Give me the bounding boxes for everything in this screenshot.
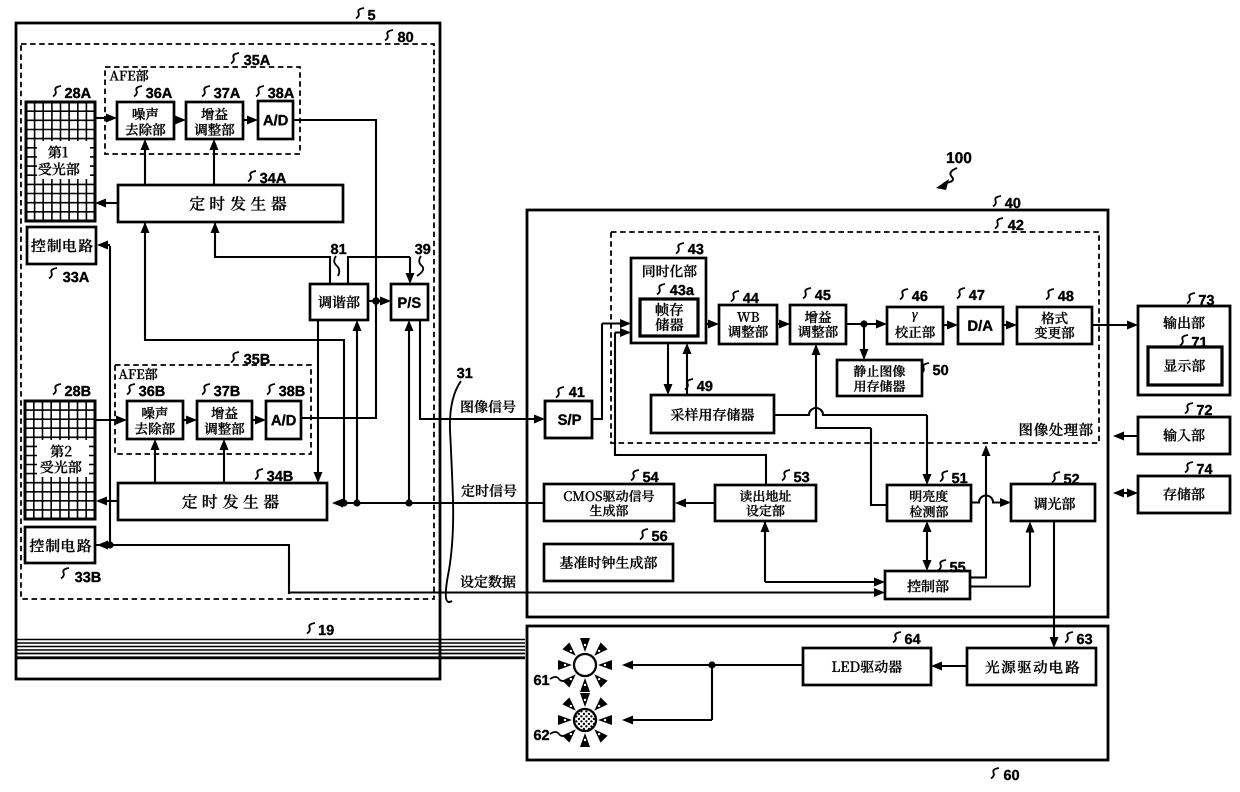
- ref label 47: [957, 288, 965, 299]
- light source drive box 63: [967, 648, 1096, 685]
- imaging section dashed box 80: [21, 44, 434, 599]
- ref label 61: [534, 675, 549, 685]
- wire 43 down to 49: [667, 343, 669, 387]
- ref label 36A: [134, 86, 142, 97]
- noise removal box 36B: [127, 401, 183, 439]
- ref label 80: [385, 30, 393, 41]
- wire 28B to 36B: [96, 419, 119, 421]
- ref label 34A: [248, 171, 256, 182]
- ref label 45: [803, 288, 811, 299]
- output box 73: [1138, 306, 1230, 395]
- ref label 37B: [202, 384, 210, 395]
- S/P box 41: [545, 401, 592, 438]
- ref label 42: [995, 218, 1003, 229]
- wire 48 to output 73: [1092, 324, 1130, 326]
- ref label 28A: [53, 86, 61, 97]
- control circuit box 33A: [27, 227, 96, 264]
- ref label 73: [1187, 293, 1195, 304]
- LED white 61: [558, 638, 612, 692]
- A/D box 38A: [258, 101, 293, 139]
- wire 36A to 37A: [174, 119, 178, 121]
- wire 34B to sensor 28B: [104, 500, 118, 502]
- wire 51 to 55 double arrow: [926, 529, 928, 563]
- wire tuner 81 to 34A: [329, 256, 331, 284]
- ref label 49: [685, 379, 693, 390]
- light guide 19 lines: [16, 639, 525, 641]
- input box 72: [1138, 417, 1230, 454]
- ref label 64: [893, 632, 901, 643]
- wire 34B to 36B: [154, 447, 156, 483]
- ref label 81: [331, 244, 346, 254]
- sensor grid 28B: [25, 401, 95, 519]
- ref label 50: [921, 363, 929, 374]
- frame memory box 43a: [640, 299, 698, 336]
- sampling memory box 49: [651, 395, 774, 433]
- timing generator box 34B: [118, 483, 327, 520]
- ref label 37A: [202, 86, 210, 97]
- storage box 74: [1138, 476, 1230, 513]
- ref label 52: [1052, 472, 1060, 483]
- ref label 60: [991, 768, 999, 779]
- timing generator box 34A: [118, 185, 343, 222]
- wire 49 to 51 with hop: [774, 408, 927, 415]
- wire 44 to 45: [777, 323, 782, 325]
- light source unit box 60: [527, 626, 1108, 760]
- wire 53 to 54: [683, 502, 715, 504]
- leader 100: [944, 168, 957, 183]
- wire timing up to P/S: [408, 328, 410, 503]
- wire timing up to tuner: [356, 328, 358, 503]
- A/D box 38B: [266, 401, 301, 439]
- wire 43 to 44: [706, 323, 711, 325]
- ref label 36B: [127, 384, 135, 395]
- processor unit box 40: [527, 210, 1108, 617]
- ref label 44: [731, 291, 739, 302]
- gain adjust box 37B: [197, 401, 252, 439]
- wire to LED 62: [711, 665, 713, 720]
- ref label 19: [307, 623, 315, 634]
- scope unit box 5: [16, 23, 440, 679]
- ref label 28B: [53, 384, 61, 395]
- ref label 63: [1065, 632, 1073, 643]
- ref label 100: [947, 152, 971, 163]
- wire 46 to 47: [943, 324, 950, 326]
- label image processing part: [1020, 423, 1032, 436]
- label setting data: [461, 575, 516, 588]
- noise removal box 36A: [117, 102, 174, 139]
- control box 55: [885, 571, 970, 599]
- wire tuner bottom to 34B: [317, 320, 319, 475]
- wire timing to 34A bottom left: [144, 222, 146, 341]
- ref label 71: [1180, 335, 1188, 346]
- brightness detect box 51: [887, 485, 971, 521]
- wire 63 to 64: [939, 665, 967, 667]
- label image signal: [462, 400, 516, 413]
- ref label 40: [993, 196, 1001, 207]
- wire 55 up to image processor 42: [970, 576, 986, 578]
- ref label 43: [676, 243, 684, 254]
- ref label 72: [1185, 403, 1193, 414]
- ref label 43a: [657, 284, 665, 295]
- wire 47 to 48: [1003, 324, 1009, 326]
- gain adjust box 37A: [186, 102, 243, 139]
- readout address box 53: [715, 485, 816, 521]
- ref label 35A: [231, 53, 239, 64]
- AFE dashed box 35A: [105, 67, 300, 154]
- ref label 56: [640, 529, 648, 540]
- control circuit box 33B: [25, 527, 95, 563]
- AFE dashed box 35B: [115, 365, 311, 454]
- wire 45 to 46 with node: [846, 323, 879, 325]
- LED driver box 64: [803, 648, 931, 685]
- wire 53 55 vertical: [764, 521, 766, 582]
- ref label 38A: [256, 86, 264, 97]
- ref label 46: [900, 289, 908, 300]
- ref label 62: [534, 730, 549, 740]
- leader 31: [446, 381, 461, 602]
- wire 53 to 43: [765, 456, 767, 485]
- wire 36B to 37B: [183, 419, 189, 421]
- wire 51 to 52 with hop: [971, 496, 1003, 503]
- wire down into 51: [926, 415, 928, 477]
- ref label 54: [631, 470, 639, 481]
- ref label 35B: [231, 352, 239, 363]
- wire 34B to 37B: [223, 447, 225, 483]
- display box 71: [1148, 347, 1222, 385]
- gamma correction box 46: [887, 307, 943, 344]
- wire 51 feedback to 45: [870, 504, 887, 506]
- P/S box 39: [391, 284, 428, 320]
- wire 55 up to dimmer 52 bottom: [970, 585, 1030, 587]
- image processing dashed box 42: [611, 232, 1099, 443]
- node junction to tuner and P/S: [372, 297, 380, 305]
- ref label 55: [938, 560, 946, 571]
- still image memory box 50: [837, 360, 922, 396]
- ref label 5: [356, 8, 364, 19]
- ref label 74: [1185, 462, 1193, 473]
- ref label 39: [415, 244, 430, 254]
- ref label 31: [457, 368, 472, 378]
- wire 74 processor double arrow: [1119, 492, 1130, 494]
- sensor grid 28A: [26, 102, 95, 221]
- ref label 34B: [255, 469, 263, 480]
- ref label 41: [556, 387, 564, 398]
- wire 37A to 38A: [243, 119, 250, 121]
- CMOS drive signal box 54: [544, 484, 674, 521]
- wire 38A output net: [293, 119, 377, 121]
- WB adjust box 44: [719, 305, 777, 344]
- wire S/P to 43: [592, 418, 603, 420]
- wire P/S to S/P image signal 31: [419, 320, 421, 419]
- ref label 33B: [61, 568, 69, 579]
- wire 72 to processor: [1121, 435, 1138, 437]
- ref label 38B: [267, 384, 275, 395]
- tuner box 81: [310, 284, 368, 320]
- wire 28A to 36A: [95, 117, 109, 119]
- branch up at 344: [343, 340, 345, 503]
- LED dotted 62: [558, 693, 612, 747]
- wire 34A to 36A: [144, 147, 146, 185]
- dimming box 52: [1011, 484, 1095, 521]
- label AFE (B): [119, 368, 158, 380]
- label timing signal: [462, 484, 517, 497]
- D/A box 47: [958, 307, 1003, 344]
- ref label 48: [1046, 289, 1054, 300]
- ref label 51: [940, 471, 948, 482]
- timing signal line from 54: [337, 502, 544, 504]
- label AFE (A): [110, 70, 149, 82]
- ref label 33A: [49, 268, 57, 279]
- wire tuner 81 to P/S top: [347, 257, 349, 284]
- wire node to still image memory 50: [863, 324, 865, 352]
- gain adjust box 45: [790, 305, 846, 344]
- wire 64 to LED 61: [630, 664, 803, 666]
- wire 52 down to 63: [1053, 521, 1055, 640]
- wire 38B output to net: [301, 417, 377, 419]
- wire 49 up to 43: [686, 351, 688, 395]
- synchronizer box 43: [631, 258, 706, 343]
- wire 34A to sensor 28A: [103, 202, 118, 204]
- wire 37B to 38B: [252, 419, 258, 421]
- format change box 48: [1017, 307, 1092, 344]
- reference clock box 56: [544, 544, 673, 581]
- ref label 53: [782, 470, 790, 481]
- wire 34A to 37A: [213, 147, 215, 185]
- setting data net to 33A 33B 55: [109, 246, 111, 546]
